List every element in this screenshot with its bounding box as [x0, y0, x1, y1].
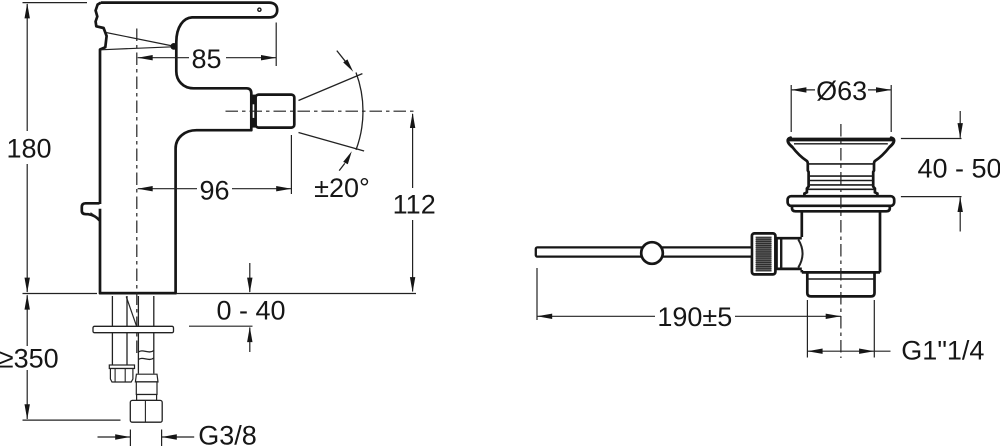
dimension 0 - 40 upper arrow	[249, 263, 251, 292]
svg-text:G3/8: G3/8	[198, 421, 257, 446]
faucet body outline	[96, 3, 278, 294]
mounting flange washer	[93, 326, 174, 332]
leader dot	[170, 43, 177, 50]
fan top leader arrow	[337, 51, 346, 63]
svg-text:190±5: 190±5	[657, 302, 732, 332]
dimension G3/8	[129, 430, 131, 446]
svg-text:96: 96	[199, 176, 229, 206]
dimension 0 - 40 lower arrow	[249, 328, 251, 353]
hose fitting band	[137, 395, 157, 401]
dimension 190+-5	[536, 268, 538, 320]
spray fan upper line	[299, 74, 363, 101]
dimension 96	[138, 188, 197, 190]
dimension O63	[790, 85, 792, 132]
dimension 180	[26, 4, 28, 131]
dimension >=350	[26, 295, 28, 346]
drain funnel right side	[873, 146, 890, 196]
stud washer	[109, 365, 134, 369]
svg-text:40 - 50: 40 - 50	[917, 154, 1000, 184]
drain tail thread line	[807, 278, 874, 280]
svg-text:180: 180	[6, 133, 51, 163]
aerator	[256, 95, 295, 128]
hook inner line	[91, 213, 99, 219]
fan bottom leader arrow	[339, 163, 345, 170]
svg-text:Ø63: Ø63	[816, 76, 867, 106]
dimension 112	[412, 114, 414, 188]
mounting stud left line	[111, 296, 113, 326]
supply hose upper	[137, 296, 139, 326]
svg-text:112: 112	[393, 190, 436, 220]
spray fan arc	[356, 73, 363, 150]
popup rod	[536, 247, 752, 256]
drain funnel left side	[792, 146, 809, 196]
stud hex nut	[110, 369, 132, 383]
lift rod diagonal	[126, 297, 136, 327]
svg-text:0 - 40: 0 - 40	[216, 295, 285, 325]
hose fitting collar	[135, 374, 158, 382]
dimension 40 - 50	[901, 138, 962, 140]
knurled nut	[752, 233, 776, 274]
85 extension line	[275, 23, 277, 67]
dimension 85	[138, 57, 189, 59]
drain top flange	[789, 138, 893, 142]
spout tip upper nub	[250, 95, 255, 105]
svg-text:85: 85	[191, 44, 221, 74]
lever pivot hole	[258, 8, 261, 11]
hose fitting body	[136, 382, 157, 395]
drain tail pipe	[807, 272, 874, 296]
hose break wave 1	[138, 351, 153, 353]
hose end nut	[130, 400, 162, 422]
drain vertical centerline	[840, 124, 842, 358]
drain tee	[777, 238, 802, 269]
base reference line right	[176, 293, 416, 295]
tee inner line	[780, 240, 782, 268]
drain body sides	[800, 211, 803, 237]
flange extension line	[189, 325, 253, 327]
dimension G1"1/4	[806, 300, 808, 358]
vertical centerline faucet	[136, 29, 138, 357]
bottom reference line	[23, 419, 121, 421]
tee inner arc	[798, 240, 802, 268]
drain lower flange disc1	[788, 196, 895, 206]
svg-text:≥350: ≥350	[0, 343, 59, 373]
drain lower flange disc2	[792, 206, 890, 212]
drain ring lines	[808, 163, 874, 165]
lever leader line lower	[101, 47, 173, 50]
96 extension line	[290, 135, 292, 194]
spray fan lower line	[299, 133, 365, 152]
spout tip lower nub	[250, 118, 255, 128]
drain body bottom step	[802, 271, 880, 274]
supply hose lower	[137, 333, 139, 374]
horizontal centerline spout	[226, 110, 417, 112]
svg-text:±20°: ±20°	[314, 173, 370, 203]
rod ball	[641, 242, 663, 264]
side hook clip	[82, 203, 100, 220]
svg-text:G1"1/4: G1"1/4	[901, 335, 984, 365]
hose break wave 2	[138, 358, 153, 360]
base reference line left	[23, 293, 98, 295]
faucet base bottom thick line	[100, 292, 176, 295]
top reference line	[23, 2, 88, 4]
lever leader line upper	[106, 33, 173, 47]
